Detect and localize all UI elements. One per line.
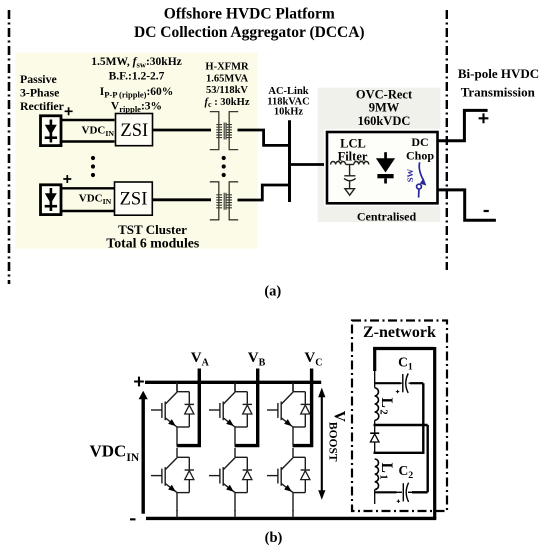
svg-text:B.F.:1.2-2.7: B.F.:1.2-2.7 (109, 71, 165, 83)
svg-text:ZSI: ZSI (120, 190, 148, 210)
svg-text:Chop: Chop (406, 149, 434, 163)
svg-text:(b): (b) (265, 530, 283, 546)
svg-text:Total 6 modules: Total 6 modules (106, 235, 200, 250)
svg-text:Bi-pole HVDC: Bi-pole HVDC (458, 66, 539, 81)
svg-text:3-Phase: 3-Phase (20, 85, 59, 99)
svg-text:Passive: Passive (20, 72, 57, 86)
svg-text:DC Collection Aggregator (DCCA: DC Collection Aggregator (DCCA) (134, 24, 365, 41)
svg-text:LCL: LCL (340, 137, 366, 151)
svg-text:9MW: 9MW (369, 101, 400, 115)
svg-text:53/118kV: 53/118kV (206, 85, 248, 96)
svg-text:DC: DC (411, 135, 428, 149)
svg-text:Transmission: Transmission (461, 85, 536, 100)
svg-text:Rectifier: Rectifier (20, 99, 64, 113)
svg-text:118kVAC: 118kVAC (267, 96, 309, 107)
svg-text:(a): (a) (264, 284, 281, 300)
svg-text:1.5MW, fsw:30kHz: 1.5MW, fsw:30kHz (91, 56, 182, 70)
svg-text:H-XFMR: H-XFMR (205, 62, 249, 73)
svg-text:160kVDC: 160kVDC (358, 114, 411, 128)
svg-text:1.65MVA: 1.65MVA (206, 73, 249, 84)
svg-text:OVC-Rect: OVC-Rect (356, 88, 413, 102)
svg-text:ZSI: ZSI (120, 121, 148, 141)
svg-text:Offshore HVDC Platform: Offshore HVDC Platform (164, 6, 335, 23)
svg-text:fc : 30kHz: fc : 30kHz (205, 97, 250, 109)
svg-text:Z-network: Z-network (363, 324, 436, 341)
svg-text:10kHz: 10kHz (274, 107, 304, 118)
svg-text:SW: SW (405, 168, 415, 182)
svg-text:Centralised: Centralised (357, 210, 417, 224)
